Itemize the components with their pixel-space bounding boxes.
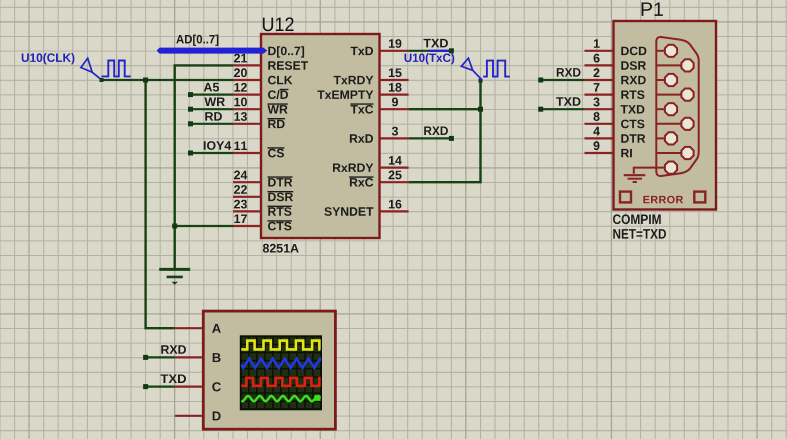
pin number 11 bbox=[234, 142, 247, 151]
oscilloscope channel D pin stub bbox=[175, 415, 204, 417]
P1 pin number 6 bbox=[594, 54, 600, 63]
pin 9 (TxC) stub bbox=[380, 108, 409, 110]
P1 DB9 pin circle left 3 bbox=[665, 103, 677, 115]
wire TxC/RxC net bbox=[409, 80, 481, 182]
P1 pin name DTR bbox=[621, 134, 645, 142]
oscilloscope channel A pin stub bbox=[175, 327, 204, 329]
pin number 13 bbox=[234, 112, 247, 121]
wire RXD net to scope B bbox=[146, 356, 175, 358]
label ERROR bbox=[643, 196, 683, 204]
ground (U12 CTS net) bbox=[159, 269, 190, 284]
pin number 9 bbox=[392, 98, 398, 107]
wire WR net bbox=[191, 108, 234, 110]
P1 pin 4 (DTR) stub bbox=[585, 137, 614, 139]
P1 DB9 pin link left 3 bbox=[656, 108, 665, 110]
pin 11 (CS) stub bbox=[233, 152, 261, 154]
P1 pin 7 (RTS) stub bbox=[585, 93, 614, 95]
pin number 18 bbox=[389, 83, 402, 92]
pin number 19 bbox=[389, 39, 402, 48]
P1 DB9 pin link left 1 bbox=[656, 50, 665, 52]
oscilloscope screen bbox=[241, 336, 321, 409]
pin number 14 bbox=[389, 156, 402, 165]
label IOY4 bbox=[204, 141, 231, 150]
wire end generator CLK bbox=[100, 78, 104, 82]
wire CLK net (generator to U12 pin 20) bbox=[101, 79, 233, 81]
wire TXD net (P1 pin 3) bbox=[541, 108, 585, 110]
label TXD (P1) bbox=[556, 97, 580, 106]
label COMPIM bbox=[613, 214, 661, 224]
chip U12 body (8251A) bbox=[261, 34, 380, 238]
P1 pin 1 (DCD) stub bbox=[585, 50, 614, 52]
P1 DB9 pin circle right 3 bbox=[681, 118, 693, 130]
wire A5 net bbox=[191, 93, 234, 95]
pin name C/D bbox=[268, 90, 289, 100]
P1 DB9 pin link right 4 bbox=[656, 152, 681, 154]
P1 pin name RTS bbox=[621, 90, 644, 99]
pin name TxC bbox=[350, 104, 373, 114]
P1 pin number 1 bbox=[594, 39, 600, 48]
pin 20 (CLK) stub bbox=[233, 79, 261, 81]
pin number 15 bbox=[389, 69, 402, 78]
P1 DB9 pin circle right 1 bbox=[681, 59, 693, 71]
pin number 23 bbox=[234, 200, 247, 209]
label NET=TXD bbox=[613, 229, 666, 239]
wire RXD net (U12 RxD) bbox=[409, 137, 452, 139]
pin 22 (DSR) stub bbox=[233, 196, 261, 198]
pin number 3 bbox=[392, 127, 398, 136]
wire end generator TxC bbox=[479, 79, 483, 83]
wire TXD net (U12 TxD) bbox=[409, 50, 452, 52]
label TXD (U12) bbox=[424, 39, 448, 48]
P1 DB9 pin circle left 4 bbox=[665, 132, 677, 144]
pin name DTR bbox=[268, 177, 293, 186]
oscilloscope body bbox=[203, 311, 335, 429]
pin name RxC bbox=[349, 177, 373, 187]
P1 pin name RI bbox=[621, 149, 632, 157]
P1 DB9 shell bbox=[656, 37, 698, 176]
wire TXD blue overlay bbox=[429, 50, 451, 52]
pin name RTS bbox=[268, 206, 292, 216]
wire end IOY4 bbox=[188, 151, 193, 156]
oscilloscope channel B label bbox=[213, 353, 221, 362]
pin name SYNDET bbox=[324, 207, 373, 216]
P1 pin number 4 bbox=[593, 127, 600, 135]
pin number 16 bbox=[389, 200, 402, 209]
P1 DB9 pin link right 3 bbox=[656, 123, 681, 125]
P1 DB9 pin circle left 1 bbox=[665, 45, 677, 57]
label RXD (U12) bbox=[424, 127, 448, 136]
pin name DSR bbox=[268, 192, 294, 202]
oscilloscope trace D (green sine wave) bbox=[241, 395, 320, 401]
pin number 17 bbox=[234, 215, 247, 224]
P1 pin 3 (TXD) stub bbox=[585, 108, 614, 110]
wire RD net bbox=[191, 123, 234, 125]
P1 pin number 3 bbox=[593, 98, 599, 107]
pin 13 (RD) stub bbox=[233, 123, 261, 125]
pin name WR bbox=[268, 104, 288, 113]
P1 pin 6 (DSR) stub bbox=[585, 64, 614, 66]
label TXD (scope) bbox=[161, 375, 186, 384]
pin 16 (SYNDET) stub bbox=[380, 210, 409, 212]
P1 pin name DSR bbox=[621, 61, 646, 70]
pin number 20 bbox=[234, 68, 247, 77]
wire IOY4 net bbox=[191, 152, 234, 154]
wire end scope B bbox=[143, 355, 148, 360]
P1 ERROR LED right bbox=[694, 192, 705, 203]
wire CLK net vertical to oscilloscope A bbox=[146, 80, 175, 328]
P1 pin name DCD bbox=[621, 47, 646, 56]
P1 pin 2 (RXD) stub bbox=[585, 79, 614, 81]
junction CLK node bbox=[143, 78, 148, 83]
generator U10(CLK) symbol bbox=[81, 58, 131, 79]
P1 pin number 7 bbox=[594, 83, 600, 92]
label P1 title bbox=[642, 3, 663, 16]
oscilloscope channel B pin stub bbox=[175, 356, 204, 358]
P1 pin number 9 bbox=[594, 141, 600, 150]
pin 10 (WR) stub bbox=[233, 108, 261, 110]
oscilloscope channel C label bbox=[212, 382, 221, 391]
pin 23 (RTS) stub bbox=[233, 210, 261, 212]
ground (P1 shell) bbox=[624, 168, 665, 182]
label A5 bbox=[204, 83, 219, 92]
oscilloscope trace C (red square wave) bbox=[241, 378, 320, 386]
wire RXD net (P1 pin 2) bbox=[541, 79, 585, 81]
pin 12 (C/D) stub bbox=[233, 93, 261, 95]
P1 pin name RXD bbox=[621, 76, 645, 84]
pin 21 (RESET) stub bbox=[233, 64, 261, 66]
pin name RD bbox=[268, 119, 286, 128]
P1 pin 8 (CTS) stub bbox=[585, 123, 614, 125]
label WR bbox=[205, 98, 225, 107]
label AD[0..7] bbox=[176, 35, 218, 46]
generator U10(TxC) symbol bbox=[461, 58, 510, 80]
P1 DB9 pin link right 2 bbox=[656, 94, 681, 96]
oscilloscope channel A label bbox=[212, 324, 221, 333]
wire end RXD P1 bbox=[538, 78, 543, 83]
oscilloscope channel C pin stub bbox=[175, 386, 204, 388]
oscilloscope channel D label bbox=[213, 412, 221, 421]
pin name TxRDY bbox=[334, 76, 374, 84]
junction CTS node bbox=[172, 224, 177, 229]
wire end RXD bbox=[449, 136, 454, 141]
P1 pin name CTS bbox=[621, 120, 644, 129]
label 8251A bbox=[263, 244, 299, 253]
label RXD (scope) bbox=[161, 345, 186, 354]
pin name RxD bbox=[350, 134, 373, 142]
oscilloscope trace B (blue triangle wave) bbox=[241, 359, 326, 368]
pin number 10 bbox=[234, 98, 247, 107]
pin 14 (RxRDY) stub bbox=[380, 167, 409, 169]
wire end WR bbox=[188, 107, 193, 112]
wire end A5 bbox=[188, 92, 193, 97]
pin number 24 bbox=[234, 171, 247, 180]
P1 DB9 pin link left 4 bbox=[656, 137, 665, 139]
label U10(TxC) bbox=[405, 53, 455, 64]
pin name TxEMPTY bbox=[317, 91, 373, 99]
wire RESET/CTS/GND net bbox=[175, 65, 233, 269]
wire end TXD bbox=[449, 48, 454, 53]
bus AD[0..7] bbox=[157, 48, 268, 54]
P1 pin number 8 bbox=[594, 112, 600, 121]
P1 pin name TXD bbox=[621, 105, 645, 113]
P1 DB9 pin circle left 2 bbox=[665, 74, 677, 86]
pin number 22 bbox=[234, 185, 247, 194]
pin 25 (RxC) stub bbox=[380, 181, 409, 183]
P1 DB9 pin link right 1 bbox=[656, 64, 681, 66]
connector P1 body (COMPIM) bbox=[614, 21, 717, 210]
label RXD (P1) bbox=[557, 68, 581, 77]
pin name RxRDY bbox=[333, 164, 373, 172]
P1 DB9 pin circle left 5 bbox=[665, 162, 677, 174]
wire TXD net to scope C bbox=[146, 386, 175, 388]
pin name RESET bbox=[268, 61, 308, 70]
pin name D[0..7] bbox=[268, 46, 304, 57]
wire end RD bbox=[188, 121, 193, 126]
pin 15 (TxRDY) stub bbox=[380, 79, 409, 81]
label U10(CLK) bbox=[22, 53, 75, 64]
pin 18 (TxEMPTY) stub bbox=[380, 93, 409, 95]
pin name CLK bbox=[268, 76, 293, 85]
P1 DB9 pin link left 2 bbox=[656, 79, 665, 81]
junction TxC node bbox=[478, 107, 483, 112]
pin 19 (TxD) stub bbox=[380, 50, 409, 52]
wire end scope C bbox=[143, 384, 148, 389]
oscilloscope trace A (yellow square wave) bbox=[241, 341, 320, 350]
P1 ERROR LED left bbox=[620, 192, 631, 203]
pin 17 (CTS) stub bbox=[233, 225, 261, 227]
P1 DB9 pin circle right 2 bbox=[681, 89, 693, 101]
pin name CTS bbox=[268, 221, 292, 231]
label RD bbox=[205, 112, 222, 121]
P1 DB9 pin circle right 4 bbox=[681, 147, 693, 159]
pin 24 (DTR) stub bbox=[233, 181, 261, 183]
pin name TxD bbox=[351, 47, 373, 55]
wire end TXD P1 bbox=[538, 107, 543, 112]
P1 pin 9 (RI) stub bbox=[585, 152, 614, 154]
pin number 21 bbox=[234, 54, 247, 63]
pin name CS bbox=[268, 148, 285, 158]
pin number 12 bbox=[234, 83, 247, 92]
pin 3 (RxD) stub bbox=[380, 137, 409, 139]
pin number 25 bbox=[389, 171, 402, 180]
label U12 title bbox=[263, 17, 294, 31]
P1 pin number 2 bbox=[594, 68, 600, 77]
